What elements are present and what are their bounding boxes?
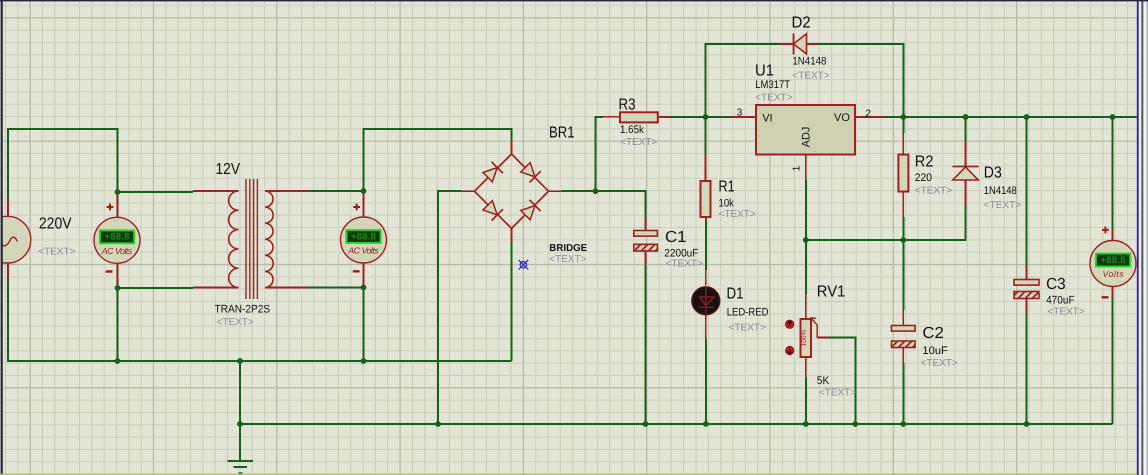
svg-text:BR1: BR1 xyxy=(549,125,575,142)
svg-text:R3: R3 xyxy=(619,97,636,114)
svg-text:<TEXT>: <TEXT> xyxy=(819,388,856,399)
svg-text:<TEXT>: <TEXT> xyxy=(217,317,254,328)
svg-text:470uF: 470uF xyxy=(1046,295,1075,307)
svg-text:R1: R1 xyxy=(719,178,735,195)
svg-text:C1: C1 xyxy=(665,229,687,246)
svg-text:LM317T: LM317T xyxy=(755,79,790,91)
svg-text:ADJ: ADJ xyxy=(801,127,813,148)
svg-text:220V: 220V xyxy=(39,216,72,233)
svg-text:+88.8: +88.8 xyxy=(1101,255,1127,266)
svg-text:10uF: 10uF xyxy=(922,345,948,357)
svg-text:1: 1 xyxy=(792,165,803,171)
svg-text:VI: VI xyxy=(762,113,772,125)
svg-text:BRIDGE: BRIDGE xyxy=(549,243,587,254)
svg-text:12V: 12V xyxy=(216,161,241,178)
svg-text:1N4148: 1N4148 xyxy=(792,56,826,68)
svg-text:RV1: RV1 xyxy=(817,284,846,301)
svg-text:C3: C3 xyxy=(1046,276,1066,293)
svg-text:LED-RED: LED-RED xyxy=(727,307,769,319)
svg-text:220: 220 xyxy=(915,172,932,184)
svg-text:<TEXT>: <TEXT> xyxy=(719,209,756,220)
svg-text:AC Volts: AC Volts xyxy=(347,246,379,256)
svg-text:<TEXT>: <TEXT> xyxy=(984,200,1021,211)
svg-text:D3: D3 xyxy=(984,164,1002,181)
svg-text:5K: 5K xyxy=(817,375,830,387)
svg-text:<TEXT>: <TEXT> xyxy=(1047,306,1084,317)
svg-text:2: 2 xyxy=(865,109,871,120)
svg-text:10k: 10k xyxy=(719,198,735,210)
svg-text:R2: R2 xyxy=(915,153,934,170)
svg-text:<TEXT>: <TEXT> xyxy=(729,323,766,334)
svg-text:<TEXT>: <TEXT> xyxy=(915,186,952,197)
svg-text:+88.8: +88.8 xyxy=(105,232,131,243)
svg-text:D2: D2 xyxy=(792,15,811,32)
svg-text:1N4148: 1N4148 xyxy=(984,185,1017,197)
svg-text:Volts: Volts xyxy=(1103,269,1125,279)
svg-text:AC Volts: AC Volts xyxy=(101,246,133,256)
svg-text:D1: D1 xyxy=(727,286,744,303)
svg-text:<TEXT>: <TEXT> xyxy=(620,137,657,148)
svg-text:U1: U1 xyxy=(755,63,774,80)
svg-text:VO: VO xyxy=(834,112,850,124)
svg-text:<TEXT>: <TEXT> xyxy=(755,93,792,104)
svg-text:+88.8: +88.8 xyxy=(351,231,377,242)
svg-text:TRAN-2P2S: TRAN-2P2S xyxy=(215,304,271,316)
svg-text:<TEXT>: <TEXT> xyxy=(921,358,958,369)
svg-text:<TEXT>: <TEXT> xyxy=(792,70,829,81)
svg-text:<TEXT>: <TEXT> xyxy=(38,246,75,257)
svg-text:3: 3 xyxy=(737,108,743,119)
svg-text:<TEXT>: <TEXT> xyxy=(549,254,586,265)
svg-text:1.65k: 1.65k xyxy=(620,124,644,136)
svg-text:C2: C2 xyxy=(922,325,944,342)
svg-text:100%: 100% xyxy=(801,329,808,346)
svg-text:<TEXT>: <TEXT> xyxy=(666,259,703,270)
